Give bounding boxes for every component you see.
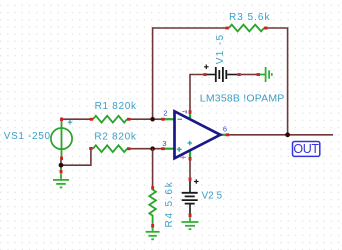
wire row3 from VS1 bottom node up to R2 [61, 149, 91, 165]
wire op-amp bottom supply to battery V2 [189, 160, 191, 177]
svg-text:R2 820k: R2 820k [94, 131, 136, 142]
triangle body [175, 111, 221, 158]
pin 3 stub [165, 148, 176, 150]
plus sign of V1 [204, 65, 209, 70]
op-amp U1 LM358B [161, 110, 229, 160]
svg-text:R1 820k: R1 820k [95, 101, 137, 112]
svg-text:6: 6 [223, 125, 227, 134]
wire row2 from VS1 to R1 [62, 118, 91, 120]
wire from battery V1 to ground [241, 74, 257, 76]
battery V2 [182, 177, 199, 217]
junction pin2 node [150, 117, 155, 122]
terminal pin3 [161, 147, 165, 150]
wire op-amp top supply [190, 75, 203, 111]
ground right of V1 (rotated) [257, 67, 272, 82]
tiny mark near bottom supply pin [180, 155, 186, 159]
terminal top supply [189, 110, 192, 114]
ground under V2 [182, 217, 199, 229]
bottom supply stub [189, 150, 191, 157]
tiny mark near top supply pin [182, 110, 186, 113]
svg-text:2: 2 [163, 109, 167, 118]
ground under R4 [146, 228, 160, 240]
svg-text:3: 3 [162, 139, 166, 148]
resistor R2 [89, 145, 130, 152]
wire top feedback left segment [153, 27, 226, 29]
wire left vertical from R3 down to pin2 node [152, 27, 154, 119]
pin 6 stub [220, 134, 226, 136]
wire R4 from pin3 node down [152, 149, 154, 187]
plus mark at VS1 positive terminal [68, 120, 73, 124]
pin 2 stub [165, 118, 176, 120]
resistor R4 [149, 186, 156, 227]
wire top feedback right segment with corner down to output [267, 28, 287, 135]
wire row3 from R2 to pin3 [130, 148, 162, 150]
plus marker lower-left [177, 147, 182, 152]
svg-text:R3 5.6k: R3 5.6k [229, 12, 270, 23]
battery V1 [203, 65, 241, 83]
svg-text:R4 5.6k: R4 5.6k [164, 180, 175, 227]
minus marker inverting input [178, 118, 183, 120]
svg-text:LM358B !OPAMP: LM358B !OPAMP [200, 92, 285, 104]
ground under VS1 [53, 168, 69, 188]
resistor R1 [90, 116, 131, 123]
junction output node [285, 132, 290, 137]
plus marker non-inverting [188, 141, 193, 146]
resistor R3 [225, 25, 267, 32]
node OUT box [293, 142, 320, 157]
svg-text:V2 5: V2 5 [202, 191, 223, 202]
svg-text:V1 -5: V1 -5 [215, 34, 226, 65]
terminal pin2 [161, 118, 165, 121]
svg-text:VS1 -250: VS1 -250 [4, 131, 51, 142]
plus sign of V2 [194, 179, 199, 184]
junction pin3 node [150, 146, 155, 151]
wire row2 from R1 to pin2 [130, 118, 162, 120]
top supply stub [189, 113, 191, 119]
junction VS1 bottom node [59, 160, 64, 168]
svg-text:OUT: OUT [293, 142, 319, 156]
wire output [229, 134, 333, 136]
terminal pin6 [226, 133, 230, 136]
voltage source VS1 [51, 118, 72, 161]
terminal bottom supply [189, 157, 192, 161]
